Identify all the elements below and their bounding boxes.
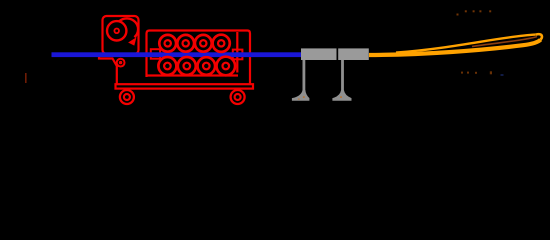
fiber top strand bbox=[396, 35, 536, 53]
foot artifact specks bbox=[298, 96, 342, 100]
spool box bbox=[103, 16, 139, 54]
roller bottom 1 bbox=[158, 57, 176, 75]
wheel right bbox=[231, 90, 245, 104]
stand left bbox=[292, 60, 310, 101]
faint text artifact dots (upper label) bbox=[457, 10, 492, 15]
roller bottom 4 bbox=[217, 57, 236, 76]
roller top 2 bbox=[177, 35, 194, 52]
roller bottom 2 bbox=[178, 57, 196, 75]
guide pulley bbox=[117, 59, 125, 67]
fiber inner dark turn bbox=[472, 37, 537, 47]
roller cage bottom edge bbox=[147, 74, 239, 76]
spool rotation arrow bbox=[119, 18, 138, 45]
faint leader artifact left bbox=[25, 73, 27, 83]
spool wheel bbox=[107, 21, 126, 40]
roller top 4 bbox=[213, 35, 230, 52]
faint text artifact dots (lower label) bbox=[461, 71, 504, 76]
entry guide die bbox=[151, 49, 160, 59]
left wall and inlet ledge bbox=[99, 57, 117, 85]
roller top 1 bbox=[159, 35, 176, 52]
wire (blue line) bbox=[52, 52, 302, 57]
machine body outline bbox=[99, 31, 253, 89]
furnace block right bbox=[338, 48, 369, 60]
stand right bbox=[332, 60, 351, 101]
roller top 3 bbox=[195, 35, 212, 52]
wheel left bbox=[120, 90, 134, 104]
furnace block left bbox=[301, 48, 337, 60]
roller cage right edge bbox=[236, 32, 238, 73]
machine base bbox=[116, 84, 254, 88]
exit guide die bbox=[233, 50, 243, 60]
roller bottom 3 bbox=[198, 57, 216, 75]
fiber bottom strand bbox=[369, 40, 541, 55]
fiber loop tip bbox=[536, 34, 542, 39]
